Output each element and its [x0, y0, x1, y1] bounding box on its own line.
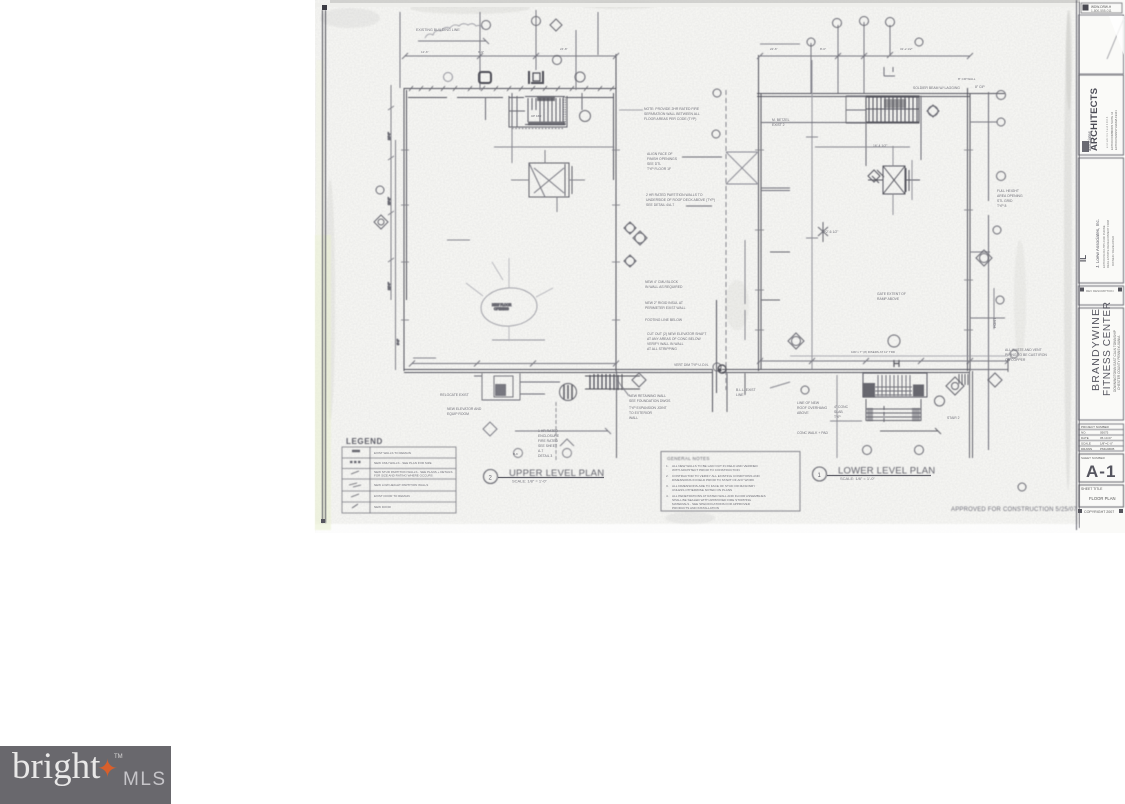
verticals above top wall	[811, 22, 890, 93]
top dim line 2	[402, 53, 619, 59]
top dim line	[757, 52, 973, 59]
svg-text:LOWER LEVEL PLAN: LOWER LEVEL PLAN	[838, 466, 935, 477]
right wall extensions below	[970, 371, 973, 458]
svg-text:REAL ESTATE DEVELOPMENT FIRM: REAL ESTATE DEVELOPMENT FIRM	[1106, 219, 1110, 268]
svg-text:ENCLOSURE: ENCLOSURE	[538, 434, 560, 438]
svg-text:PERIMETER EXIST WALL: PERIMETER EXIST WALL	[645, 306, 686, 310]
svg-text:LINE: LINE	[736, 393, 744, 397]
interior verticals and mid dim	[494, 127, 614, 163]
svg-text:9'-0": 9'-0"	[478, 50, 484, 54]
rp entry right dark block	[913, 385, 924, 397]
rp extra texts	[851, 292, 997, 354]
svg-text:1/8"=1'-0": 1/8"=1'-0"	[1100, 442, 1113, 446]
interior column line horizontals	[413, 240, 470, 358]
rp second flight below	[866, 399, 921, 421]
svg-text:22'-6": 22'-6"	[770, 47, 778, 51]
dim ticks left	[388, 106, 394, 262]
stair1 dark top bar	[537, 97, 555, 102]
svg-text:05.10.07: 05.10.07	[1100, 436, 1112, 440]
stair1 hatch	[525, 97, 566, 126]
svg-text:RAMP ABOVE: RAMP ABOVE	[877, 297, 900, 301]
leader to note	[619, 109, 643, 111]
svg-text:10R x 7" (8) RISERS AT 11" TRD: 10R x 7" (8) RISERS AT 11" TRD	[851, 350, 896, 354]
svg-text:B-9: B-9	[513, 452, 518, 456]
svg-text:STAIR 2: STAIR 2	[947, 416, 960, 420]
general notes box	[661, 452, 800, 512]
data table	[1079, 424, 1124, 451]
svg-text:8" CIP WALL: 8" CIP WALL	[958, 77, 976, 81]
svg-text:EXIST DOOR TO REMAIN: EXIST DOOR TO REMAIN	[374, 494, 410, 498]
svg-text:AT ALL STRIPPING: AT ALL STRIPPING	[647, 347, 677, 351]
rp vertical x745	[744, 240, 746, 340]
svg-text:SOLDIER BEAM W/ LAGGING: SOLDIER BEAM W/ LAGGING	[913, 86, 960, 90]
svg-text:GATE EXTENT OF: GATE EXTENT OF	[877, 292, 906, 296]
interior partition horizontals	[761, 188, 790, 191]
legend box	[342, 437, 456, 513]
fold diagonal	[1107, 18, 1124, 59]
svg-text:e s t a b l i s h e d 1 9 6 4: e s t a b l i s h e d 1 9 6 4	[1105, 116, 1109, 148]
left plan circles	[374, 17, 647, 246]
svg-text:COPYRIGHT 2007: COPYRIGHT 2007	[1084, 510, 1114, 514]
svg-text:05075: 05075	[1100, 431, 1109, 435]
bottom fade	[315, 524, 1125, 536]
svg-text:NEW CMU WALLS - SEE PLAN FOR S: NEW CMU WALLS - SEE PLAN FOR SIZE	[374, 461, 432, 465]
oval room outline	[480, 286, 539, 328]
right plan right wall	[968, 88, 971, 371]
svg-text:2 HR RATED PARTITION WALLS TO: 2 HR RATED PARTITION WALLS TO	[646, 193, 703, 197]
svg-text:NEW ELEVATOR AND: NEW ELEVATOR AND	[447, 407, 482, 411]
svg-text:FINISH OPENINGS: FINISH OPENINGS	[647, 157, 678, 161]
svg-text:SEE SHEET: SEE SHEET	[538, 444, 557, 448]
svg-text:AT ANY AREAS OF CONC BELOW: AT ANY AREAS OF CONC BELOW	[647, 337, 701, 341]
rp stair1 dark treads	[884, 99, 906, 108]
svg-text:EXIST 2: EXIST 2	[772, 123, 785, 127]
left dimension verticals	[391, 85, 396, 370]
rp top texts	[770, 47, 985, 148]
title block left border	[1077, 0, 1080, 530]
left tinted band	[315, 235, 331, 530]
svg-text:NEW DOOR: NEW DOOR	[374, 505, 392, 509]
svg-text:WALL: WALL	[629, 416, 638, 420]
mid annotation circles	[624, 89, 726, 390]
bright MLS watermark logo	[0, 746, 171, 804]
project name box	[1079, 308, 1124, 420]
folded corner white wedge	[1109, 16, 1124, 55]
svg-text:NOTE: PROVIDE 2HR RATED FIRE: NOTE: PROVIDE 2HR RATED FIRE	[644, 107, 700, 111]
dark fixture B	[529, 71, 543, 84]
svg-text:J. Loew Associates, Inc.: J. Loew Associates, Inc.	[1095, 219, 1100, 268]
left plan top wall	[404, 89, 616, 98]
left plan right wall	[614, 54, 617, 371]
svg-text:ALIGN FACE OF: ALIGN FACE OF	[647, 152, 673, 156]
left plan bottom wall	[404, 370, 713, 373]
svg-text:LEGEND: LEGEND	[346, 437, 383, 446]
scan sheet background	[315, 0, 1125, 533]
bracket near top	[884, 67, 895, 76]
svg-text:TYP 8: TYP 8	[997, 204, 1006, 208]
svg-text:PRODUCTS AND INSTALLATION: PRODUCTS AND INSTALLATION	[672, 506, 719, 510]
wall extension vertical at junction	[713, 300, 717, 412]
top left short dim	[760, 43, 800, 45]
svg-text:PROJECT NUMBER: PROJECT NUMBER	[1081, 425, 1110, 429]
svg-text:DRAWN: DRAWN	[1081, 447, 1092, 451]
svg-text:SHEET NUMBER: SHEET NUMBER	[1081, 456, 1106, 460]
svg-text:UNLESS OTHERWISE NOTED ON PLAN: UNLESS OTHERWISE NOTED ON PLANS	[672, 488, 732, 492]
svg-text:AREA OPENING: AREA OPENING	[997, 194, 1023, 198]
svg-text:NEW 4" CMU BLOCK: NEW 4" CMU BLOCK	[645, 280, 679, 284]
rp wall-end hatch right	[959, 374, 968, 385]
svg-text:STL GRID: STL GRID	[997, 199, 1013, 203]
revision cloud top-left	[425, 24, 483, 38]
short vertical above left plan corner	[399, 12, 401, 88]
svg-text:SEPARATION WALL BETWEEN ALL: SEPARATION WALL BETWEEN ALL	[644, 112, 700, 116]
svg-text:9'-8": 9'-8"	[396, 339, 400, 345]
below-wall annotation group	[483, 380, 629, 460]
svg-text:A-1: A-1	[1086, 462, 1116, 481]
scan smudges	[320, 1, 1125, 524]
rp bottom texts	[736, 189, 1047, 435]
dark square fixture A	[479, 72, 491, 83]
rp flight end hatches	[867, 408, 873, 421]
elevator circle	[560, 384, 577, 401]
svg-text:18'-2": 18'-2"	[387, 197, 391, 205]
svg-text:FOOTING LINE BELOW: FOOTING LINE BELOW	[645, 318, 683, 322]
svg-text:WITH ARCHITECT PRIOR TO CONSTR: WITH ARCHITECT PRIOR TO CONSTRUCTION	[672, 468, 740, 472]
rp interior dim line mid	[815, 146, 910, 148]
svg-text:BRANDYWINE: BRANDYWINE	[1090, 308, 1102, 391]
left plan small texts below	[440, 393, 671, 458]
rp circles	[807, 17, 1026, 492]
bottom dim string	[409, 361, 619, 367]
svg-text:NEW LOW HEIGHT PARTITION WALLS: NEW LOW HEIGHT PARTITION WALLS	[374, 483, 428, 487]
svg-text:TYP FLOOR 1F: TYP FLOOR 1F	[647, 167, 671, 171]
loew box	[1079, 158, 1124, 283]
svg-text:IL: IL	[1079, 255, 1088, 262]
svg-text:DIMENSIONS IN FIELD PRIOR TO S: DIMENSIONS IN FIELD PRIOR TO START OF AN…	[672, 478, 755, 482]
left plan left wall	[404, 88, 407, 371]
svg-text:4.: 4.	[666, 494, 669, 498]
stair2 approach lines	[511, 150, 585, 212]
svg-text:UP 16R: UP 16R	[531, 114, 542, 118]
svg-text:TYP EXPANSION JOINT: TYP EXPANSION JOINT	[629, 406, 667, 410]
svg-text:SCALE: 1/8" = 1'-0": SCALE: 1/8" = 1'-0"	[840, 476, 875, 481]
stair1 outline	[509, 96, 567, 127]
bottom strip text	[1078, 509, 1082, 513]
svg-text:VERT DIM TYP U.O.N.: VERT DIM TYP U.O.N.	[674, 363, 709, 367]
left dim rotated texts	[387, 132, 400, 345]
svg-text:24'-8": 24'-8"	[560, 47, 568, 51]
svg-text:RELOCATE EXIST: RELOCATE EXIST	[440, 393, 469, 397]
rp bottom wall right extension	[970, 358, 1008, 372]
svg-text:24'-6": 24'-6"	[387, 132, 391, 140]
rp bottom entry extras	[727, 373, 964, 458]
svg-text:SEE DTL: SEE DTL	[647, 162, 661, 166]
rp bottom entry hatch	[863, 373, 927, 397]
verticals above top wall	[480, 10, 598, 90]
svg-text:EQUIP ROOM: EQUIP ROOM	[447, 412, 469, 416]
svg-text:A-7: A-7	[538, 449, 543, 453]
rp bottom dim string	[757, 358, 1011, 364]
stair2 right hatch	[565, 164, 572, 196]
svg-text:CUT OUT (2) NEW ELEVATOR SHAFT: CUT OUT (2) NEW ELEVATOR SHAFT	[647, 332, 706, 336]
svg-text:IN WALL AS REQUIRED: IN WALL AS REQUIRED	[645, 285, 683, 289]
right plan top wall	[757, 94, 1005, 97]
outer connectors	[970, 122, 1005, 318]
interior column line vertical	[811, 60, 813, 369]
svg-text:8" CIP: 8" CIP	[975, 85, 985, 89]
svg-text:ALL WASTE AND VENT: ALL WASTE AND VENT	[1005, 348, 1042, 352]
ramp hatch below wall	[585, 374, 640, 390]
svg-text:TO EXTERIOR: TO EXTERIOR	[629, 411, 652, 415]
corridor dotted line	[512, 128, 564, 130]
svg-text:2.: 2.	[666, 474, 669, 478]
svg-text:M. BETZEL: M. BETZEL	[772, 118, 790, 122]
svg-text:FLOOR AREAS PER CODE (TYP): FLOOR AREAS PER CODE (TYP)	[644, 117, 696, 121]
rp circle near stair	[935, 396, 945, 406]
svg-text:EXISTING BUILDING LINE: EXISTING BUILDING LINE	[416, 28, 460, 32]
top wall dim ticks	[409, 86, 614, 91]
entry dark fill	[495, 384, 506, 396]
rp lower circles/diamonds	[718, 250, 1002, 394]
svg-text:APPROVED FOR CONSTRUCTION 5/25: APPROVED FOR CONSTRUCTION 5/25/07	[951, 507, 1077, 513]
svg-text:UPPER LEVEL PLAN: UPPER LEVEL PLAN	[509, 468, 604, 479]
svg-text:EXIST WALLS TO REMAIN: EXIST WALLS TO REMAIN	[374, 451, 411, 455]
svg-text:NO.: NO.	[1081, 431, 1087, 435]
svg-text:EXTON PENNSYLVANIA 19341: EXTON PENNSYLVANIA 19341	[1114, 110, 1118, 150]
svg-text:31'-2 1/2": 31'-2 1/2"	[900, 47, 913, 51]
svg-text:FULL HEIGHT: FULL HEIGHT	[997, 189, 1019, 193]
rp below texts leaders	[770, 382, 862, 421]
svg-text:FITNESS CENTER: FITNESS CENTER	[1102, 301, 1113, 396]
svg-text:DETAIL 3: DETAIL 3	[538, 454, 552, 458]
svg-text:4" CONC: 4" CONC	[834, 405, 849, 409]
sheet left border double line	[323, 10, 326, 523]
sheet title box	[1079, 485, 1124, 507]
svg-text:B.L.L. EXIST: B.L.L. EXIST	[736, 388, 756, 392]
svg-text:SCALE: SCALE	[1081, 442, 1091, 446]
upper level title	[484, 468, 605, 484]
right plan bottom wall	[722, 370, 970, 373]
stair1 dark bottom band	[528, 122, 565, 126]
svg-text:1.: 1.	[666, 464, 669, 468]
svg-text:GENERAL NOTES: GENERAL NOTES	[667, 456, 710, 461]
svg-text:NEW 2" RIGID INSUL AT: NEW 2" RIGID INSUL AT	[645, 301, 683, 305]
rp wall ticks	[755, 150, 973, 330]
top scan edge shading	[330, 0, 1125, 3]
mid retaining wall note	[0, 0, 1, 1]
svg-text:12'-6": 12'-6"	[421, 50, 429, 54]
svg-text:PIPING TO BE CAST IRON: PIPING TO BE CAST IRON	[1005, 353, 1047, 357]
thin spacer box	[1079, 286, 1124, 305]
architects box	[1079, 75, 1124, 155]
right plan left wall	[759, 55, 762, 371]
sheet corner mark	[322, 5, 327, 10]
svg-text:TYP: TYP	[834, 415, 841, 419]
svg-text:ROOF OVERHANG: ROOF OVERHANG	[797, 406, 828, 410]
svg-text:FLOOR PLAN: FLOOR PLAN	[1089, 496, 1116, 501]
mid annotations column	[644, 107, 715, 367]
rp corridor line	[726, 96, 1011, 421]
lower level title	[813, 466, 936, 482]
outer right vertical	[988, 92, 990, 450]
svg-text:SCALE: 1/8" = 1'-0": SCALE: 1/8" = 1'-0"	[512, 479, 547, 484]
rp top-left X brace	[726, 152, 758, 184]
svg-text:ABOVE: ABOVE	[797, 411, 809, 415]
svg-text:CHESTER COUNTY PENNSYLVANIA: CHESTER COUNTY PENNSYLVANIA	[1117, 335, 1121, 390]
svg-text:1 HR RATED: 1 HR RATED	[538, 429, 558, 433]
svg-text:DATE: DATE	[1081, 436, 1089, 440]
svg-text:UNDERSIDE OF ROOF DECK ABOVE (: UNDERSIDE OF ROOF DECK ABOVE (TYP)	[646, 198, 715, 202]
svg-text:+2'-6 1/2": +2'-6 1/2"	[824, 230, 839, 234]
top dim line 1	[418, 38, 489, 44]
svg-text:NEW RETAINING WALL: NEW RETAINING WALL	[629, 394, 666, 398]
rp dark elevator block	[863, 383, 875, 397]
stair2 diagonals	[529, 163, 564, 197]
svg-text:FOR SIZE AND RATING WHERE OCCU: FOR SIZE AND RATING WHERE OCCURS	[374, 474, 433, 478]
svg-text:SLAB: SLAB	[834, 410, 843, 414]
svg-text:HOIST: HOIST	[993, 318, 997, 328]
interior vertical below fixture	[486, 93, 583, 127]
svg-text:FIRE RATED: FIRE RATED	[538, 439, 558, 443]
rp H marker	[894, 360, 899, 367]
svg-text:3.: 3.	[666, 484, 669, 488]
right wall extension below	[616, 371, 618, 458]
svg-text:1-800-555-011: 1-800-555-011	[1091, 9, 1112, 13]
rp stair1	[846, 96, 919, 123]
svg-text:SHEET TITLE: SHEET TITLE	[1081, 487, 1103, 491]
paper noise	[315, 0, 1125, 533]
entry vestibule below wall	[474, 373, 560, 400]
svg-text:8'-0": 8'-0"	[820, 47, 826, 51]
svg-text:22'-0": 22'-0"	[387, 282, 391, 290]
rp stair center line	[890, 371, 892, 437]
title block top tiny box	[1081, 3, 1122, 13]
rp stair2	[868, 146, 920, 215]
wall tick marks	[401, 150, 620, 320]
stair2 outline	[529, 163, 569, 197]
svg-text:REV DESCRIPTION: REV DESCRIPTION	[1086, 289, 1114, 293]
svg-text:OWNER / DEVELOPER: OWNER / DEVELOPER	[1111, 236, 1115, 266]
svg-text:SEE DETAIL 4/A-7: SEE DETAIL 4/A-7	[646, 203, 674, 207]
svg-text:CONC WALK + PAD: CONC WALK + PAD	[797, 431, 829, 435]
svg-text:OPENING: OPENING	[494, 307, 509, 311]
sheet number box A-1	[1079, 454, 1124, 482]
existing building note	[416, 28, 568, 54]
rp center marker	[761, 222, 828, 300]
svg-text:PMG/MDB: PMG/MDB	[1100, 447, 1114, 451]
title block box1 empty	[1079, 15, 1125, 74]
svg-text:VERIFY WALL IN WALL: VERIFY WALL IN WALL	[647, 342, 684, 346]
svg-text:LINE OF NEW: LINE OF NEW	[797, 401, 820, 405]
svg-text:SEE FOUNDATION DWGS: SEE FOUNDATION DWGS	[629, 399, 671, 403]
